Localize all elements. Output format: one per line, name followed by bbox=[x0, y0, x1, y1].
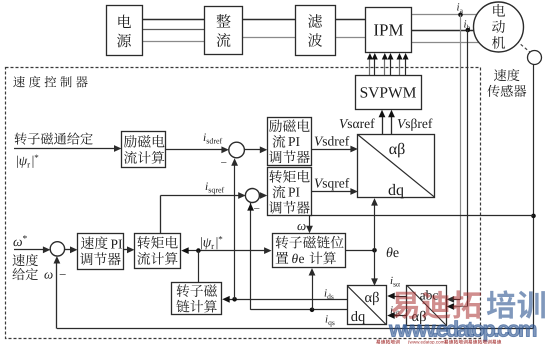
svg-text:αβ: αβ bbox=[365, 290, 380, 306]
wire: 转子磁链计算 output up bbox=[198, 251, 200, 282]
label: ia bbox=[457, 2, 464, 16]
wire: IPM→motor phase b bbox=[412, 30, 475, 32]
svg-text:SVPWM: SVPWM bbox=[360, 85, 417, 102]
shaft: motor→speed sensor (dashed) bbox=[500, 27, 531, 53]
svg-text:dq: dq bbox=[351, 309, 366, 325]
wire: 滤波→IPM line2 bbox=[335, 37, 365, 39]
label: ω (into θe calc) bbox=[297, 218, 306, 233]
svg-text:(www.edatop.com): (www.edatop.com) bbox=[408, 339, 447, 344]
block: 转矩电流PI调节器 (torque current PI regulator) bbox=[268, 168, 312, 216]
wire: 电源→整流 line2 bbox=[142, 29, 205, 31]
block: 转子磁链计算 (rotor flux calc) bbox=[172, 283, 222, 315]
wire: speed sensor output vertical bbox=[533, 65, 535, 329]
watermark: 易迪拓 (red) bbox=[391, 290, 481, 319]
node: |ψr| junction bbox=[196, 248, 201, 253]
wire: 转子磁通给定 → 励磁电流计算 bbox=[14, 145, 122, 152]
block: dq→αβ transform (upper) bbox=[358, 135, 435, 200]
svg-text:PI: PI bbox=[288, 134, 301, 149]
wire: ids feedback up to summing1 bbox=[231, 158, 238, 299]
wire: ω feedback up into speed summing circle bbox=[54, 256, 61, 329]
wire: 整流→滤波 line1 bbox=[242, 19, 295, 21]
wire: ib → abc/αβ box bbox=[447, 303, 468, 310]
wire: summing2 → 转矩电流PI调节器 bbox=[260, 192, 268, 199]
svg-text:−: − bbox=[221, 158, 228, 170]
block: abc→αβ transform bbox=[407, 285, 447, 325]
label: Vsβref bbox=[397, 116, 433, 131]
wire: isqref horizontal → summing2 bbox=[161, 192, 246, 233]
svg-text:e: e bbox=[299, 251, 305, 266]
wire: isα abc/αβ → αβ/dq bbox=[387, 293, 406, 300]
wire: 速度PI调节器 → 转矩电流计算 bbox=[123, 246, 135, 253]
wire: θe up into dq/αβ box bbox=[371, 198, 378, 250]
wire: ω feedback to θe-calc (horizontal) bbox=[310, 215, 534, 217]
wire: ia → abc/αβ box bbox=[447, 296, 461, 303]
block: 滤波 (filter) bbox=[296, 6, 336, 56]
svg-text:−: − bbox=[59, 267, 66, 282]
wire: ib sense vertical bbox=[467, 30, 469, 307]
node: iqs junction bbox=[310, 308, 315, 313]
label: ib bbox=[464, 19, 471, 33]
label: isα bbox=[390, 275, 400, 289]
wire: θe-calc output horizontal bbox=[346, 250, 375, 252]
label: 速度传感器 (speed sensor) bbox=[487, 69, 526, 97]
label: Vsqref bbox=[314, 176, 350, 191]
wire: 整流→滤波 line2 bbox=[242, 37, 295, 39]
block: 电动机 (motor) circle bbox=[474, 2, 524, 52]
wire: Vsβref dq/αβ→SVPWM bbox=[388, 110, 395, 135]
wire: isβ abc/αβ → αβ/dq bbox=[387, 312, 406, 319]
block: 速度PI调节器 (speed PI regulator) bbox=[78, 234, 124, 270]
node: θe junction bbox=[372, 248, 377, 253]
wire: speed summing → 速度PI调节器 bbox=[65, 246, 78, 253]
svg-text:PI: PI bbox=[111, 237, 124, 252]
label: ω (speed feedback) bbox=[44, 267, 53, 282]
svg-text:Vsβref: Vsβref bbox=[397, 116, 433, 131]
wire: θe down into αβ/dq box bbox=[371, 250, 378, 286]
wire: 电源→整流 line3 bbox=[142, 41, 205, 43]
wire: Vsdref 励磁PI → dq/αβ bbox=[312, 146, 358, 153]
wire: 电源→整流 line1 bbox=[142, 19, 205, 21]
label: Vsdref bbox=[314, 134, 350, 149]
summing junction 1 (isdref vs ids) bbox=[221, 142, 245, 169]
wire bundle: SVPWM gate pulses → IPM (6 arrows) bbox=[367, 53, 409, 75]
node: ib tap dot bbox=[466, 28, 471, 33]
wire: ids horizontal αβ/dq → 转子磁链计算 bbox=[222, 296, 347, 303]
svg-text:Vsαref: Vsαref bbox=[339, 116, 375, 131]
svg-text:dq: dq bbox=[388, 182, 404, 199]
wire: Vsαref dq/αβ→SVPWM bbox=[379, 110, 386, 135]
wire: Vsqref 转矩PI → dq/αβ bbox=[312, 188, 358, 195]
svg-text:αβ: αβ bbox=[389, 141, 406, 158]
block: 励磁电流PI调节器 (excitation current PI regulator) bbox=[268, 118, 312, 166]
block: 励磁电流计算 (excitation current calc) bbox=[122, 132, 166, 168]
summing junction 3 (speed) bbox=[50, 242, 66, 282]
label: Vsαref bbox=[339, 116, 375, 131]
svg-text:PI: PI bbox=[288, 185, 301, 200]
watermark: www.edatop.com bbox=[388, 317, 538, 342]
block: IPM inverter bbox=[366, 8, 412, 53]
wire: ia sense vertical bbox=[460, 15, 462, 300]
dashed boundary box 速度控制器 (speed controller) bbox=[6, 68, 481, 339]
wire: iqs horizontal from αβ/dq bbox=[251, 309, 348, 311]
node: ids junction bbox=[232, 297, 237, 302]
svg-text:www.edatop.com: www.edatop.com bbox=[388, 317, 538, 342]
node: ω junction on sensor line bbox=[531, 214, 536, 219]
wire: IPM→motor phase c bbox=[412, 42, 480, 44]
wire: iqs up into θe-calc box bbox=[309, 268, 316, 310]
label: 速度给定 (speed given) bbox=[12, 254, 37, 280]
block: 整流 (rectifier) bbox=[205, 7, 243, 55]
wire: summing1 → 励磁电流PI调节器 bbox=[245, 146, 268, 153]
block: SVPWM modulator bbox=[356, 76, 422, 110]
wire: ω* reference → speed summing circle bbox=[14, 246, 50, 253]
svg-text:θe: θe bbox=[386, 246, 399, 261]
svg-text:Vsdref: Vsdref bbox=[314, 134, 350, 149]
wire: iqs feedback up to summing2 bbox=[247, 203, 254, 310]
label: ids bbox=[324, 288, 334, 302]
label: isβ bbox=[390, 305, 400, 319]
svg-text:−: − bbox=[254, 204, 261, 216]
svg-text:IPM: IPM bbox=[373, 21, 403, 40]
wire: |ψr| into 转矩电流计算 (left arrow) bbox=[181, 247, 198, 254]
svg-text:ω: ω bbox=[44, 267, 53, 282]
wire: 励磁电流计算 → summing1 (isdref) bbox=[166, 146, 229, 153]
node: ia tap dot bbox=[458, 13, 463, 18]
wire: 滤波→IPM line1 bbox=[335, 19, 365, 21]
label: isqref bbox=[205, 181, 225, 195]
label: ω* (speed reference) bbox=[13, 234, 28, 249]
block: 转矩电流计算 (torque current calc) bbox=[135, 234, 181, 269]
watermark: 培训 (blue) bbox=[487, 290, 545, 318]
wire: ω into θe-calc box (down arrow) bbox=[306, 216, 313, 233]
block: speed sensor circle bbox=[528, 51, 542, 65]
block: 电源 (power supply) bbox=[107, 6, 143, 56]
wire: |ψr| → θe-calc box (right arrow) bbox=[198, 247, 271, 254]
wire: IPM→motor phase a bbox=[412, 14, 478, 16]
svg-text:ω: ω bbox=[297, 218, 306, 233]
label: |ψr|* (flux feedback) bbox=[200, 234, 223, 251]
summing junction 2 (isqref vs iqs) bbox=[245, 189, 260, 216]
label: 速度控制器 (top-left of dashed box) bbox=[13, 76, 87, 88]
wire: ω feedback bottom horizontal bbox=[57, 328, 534, 330]
block: 转子磁链位置θe计算 (rotor flux position calc) bbox=[273, 234, 346, 268]
label: |ψr|* (flux reference) bbox=[16, 153, 39, 170]
label: 转子磁通给定 bbox=[15, 132, 93, 144]
svg-text:Vsqref: Vsqref bbox=[314, 176, 350, 191]
block: αβ→dq transform (lower) bbox=[348, 286, 387, 326]
label: θe (angle) bbox=[386, 246, 399, 261]
label: isdref bbox=[203, 132, 223, 146]
label: iqs bbox=[325, 314, 335, 328]
watermark: tiny bottom strip bbox=[376, 339, 501, 344]
svg-text:θ: θ bbox=[292, 251, 299, 266]
